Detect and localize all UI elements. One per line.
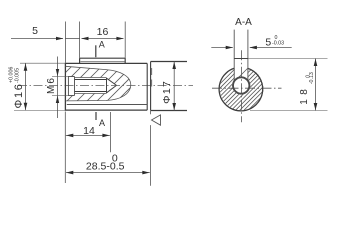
- erase hatch in slot + hole: [232, 59, 250, 95]
- white out hole area inside bubble: [66, 77, 117, 96]
- svg-text:5: 5: [32, 25, 38, 37]
- center hole: [233, 77, 249, 93]
- svg-text:-0.13: -0.13: [309, 72, 315, 84]
- key top: [80, 58, 126, 63]
- key chamfer line: [80, 60, 125, 62]
- hatching circle: [187, 44, 319, 113]
- counterbore: [68, 77, 75, 96]
- shaft body: [65, 63, 147, 111]
- section line A (bottom): [95, 112, 97, 120]
- phi16 text: [9, 67, 26, 109]
- svg-text:A: A: [99, 118, 105, 128]
- section line A (top): [95, 45, 97, 57]
- M6 dimension: [52, 57, 68, 119]
- svg-text:18: 18: [299, 85, 310, 105]
- svg-text:-0.005: -0.005: [14, 68, 20, 83]
- hatching (broken-out section): [16, 52, 176, 122]
- single hatch line in slot: [236, 68, 248, 80]
- dim 18: [248, 59, 328, 111]
- svg-text:A: A: [99, 39, 105, 49]
- slot top line: [234, 58, 248, 60]
- svg-text:Φ16: Φ16: [13, 82, 25, 108]
- svg-text:A-A: A-A: [235, 17, 252, 28]
- hidden dashes in groove: [151, 68, 153, 87]
- svg-text:5: 5: [265, 37, 271, 49]
- broken-out section boundary: [66, 66, 131, 101]
- slot side walls: [234, 30, 248, 81]
- crosshair center lines: [212, 50, 282, 122]
- dim 5 (top): [11, 22, 80, 63]
- drill end + cone: [107, 78, 117, 93]
- svg-text:M6: M6: [46, 76, 57, 94]
- phi17 body: [151, 62, 187, 111]
- dim 5 -0.03: [211, 47, 291, 49]
- dim 14: [65, 112, 110, 184]
- svg-text:Φ17: Φ17: [161, 80, 173, 104]
- outer circle with top gap: [219, 68, 263, 111]
- thread minor lines: [75, 80, 107, 92]
- dim 16 (top): [82, 22, 126, 64]
- phi17 dimension: [173, 62, 175, 111]
- phi16 dimension: [14, 63, 65, 110]
- svg-text:14: 14: [83, 125, 95, 137]
- dim 28.5: [66, 111, 151, 186]
- svg-text:28.5-0.5: 28.5-0.5: [86, 161, 125, 173]
- groove verticals: [147, 62, 150, 111]
- thread major lines: [75, 78, 107, 94]
- taper symbol: [152, 115, 161, 125]
- keyway bottom line: [67, 104, 147, 106]
- axis center line (dash-dot): [18, 85, 193, 87]
- svg-text:16: 16: [97, 26, 109, 38]
- svg-text:-0.03: -0.03: [272, 41, 284, 47]
